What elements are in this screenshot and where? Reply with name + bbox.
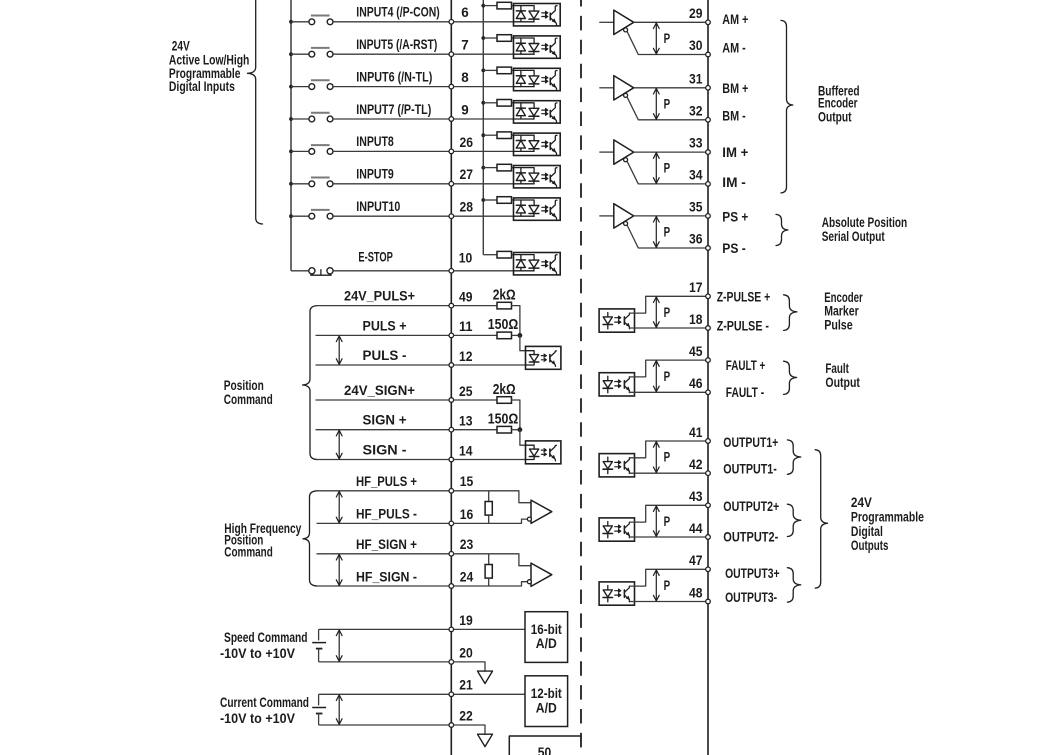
optocoupler input 6 <box>514 4 561 26</box>
node: INPUT4 bus junction <box>289 20 293 24</box>
wire: pin to SIGN opto <box>454 459 526 461</box>
wire: pin 6 to optocoupler <box>454 21 514 23</box>
svg-text:HF_PULS +: HF_PULS + <box>356 474 417 489</box>
svg-text:Digital Inputs: Digital Inputs <box>169 79 235 94</box>
line receiver HF <box>531 500 552 523</box>
svg-text:17: 17 <box>689 280 703 295</box>
svg-text:36: 36 <box>689 232 703 247</box>
svg-text:Pulse: Pulse <box>824 318 853 333</box>
twisted pair arrow SIGN <box>338 430 340 460</box>
pin 16 <box>449 521 454 526</box>
node: input bus junction row 7 <box>481 36 485 40</box>
node: INPUT8 bus junction <box>289 150 293 154</box>
svg-text:42: 42 <box>689 457 703 472</box>
svg-text:22: 22 <box>459 708 473 723</box>
twisted pair arrow Speed Command <box>338 629 340 662</box>
pin 7 <box>449 52 454 57</box>
svg-text:Command: Command <box>224 392 273 407</box>
source Current Command <box>318 694 320 705</box>
pin 6 <box>449 20 454 25</box>
pin 11 <box>449 333 454 338</box>
node: junction PULS <box>518 333 523 338</box>
node: junction SIGN <box>518 427 523 432</box>
switch INPUT7 <box>291 118 309 120</box>
svg-text:Encoder: Encoder <box>818 96 858 111</box>
svg-text:Marker: Marker <box>824 304 859 319</box>
svg-text:2kΩ: 2kΩ <box>493 382 516 398</box>
resistor input 9 <box>483 102 497 104</box>
svg-text:27: 27 <box>460 167 474 182</box>
svg-text:IM +: IM + <box>722 145 748 160</box>
svg-text:OUTPUT3-: OUTPUT3- <box>725 590 777 605</box>
wire: junction to PULS opto <box>520 335 526 350</box>
svg-text:INPUT8: INPUT8 <box>356 134 394 149</box>
twisted pair arrow HF_PULS <box>338 491 340 524</box>
svg-text:25: 25 <box>459 384 473 399</box>
svg-text:A/D: A/D <box>536 700 557 715</box>
pin 26 <box>449 149 454 154</box>
svg-text:A/D: A/D <box>536 636 557 651</box>
twisted pair arrow HF_SIGN <box>338 554 340 586</box>
optocoupler input 7 <box>514 36 561 58</box>
svg-text:P: P <box>664 31 671 46</box>
12-bit A/D converter <box>525 676 568 727</box>
resistor input 8 <box>483 69 497 71</box>
svg-text:33: 33 <box>689 136 703 151</box>
pin 21 <box>449 692 454 697</box>
wire: Current Command - to pin 22 <box>319 724 449 726</box>
svg-text:Output: Output <box>818 110 852 125</box>
wire: SIGN + to pin 13 <box>316 429 450 431</box>
wire: HF pair to receiver <box>454 491 531 503</box>
pin 19 <box>449 627 454 632</box>
wire: INPUT4 to pin 6 <box>333 21 449 23</box>
svg-text:FAULT -: FAULT - <box>726 385 764 400</box>
wire: HF_SIGN - to pin 24 <box>317 585 450 587</box>
svg-text:E-STOP: E-STOP <box>358 250 393 265</box>
svg-text:Z-PULSE -: Z-PULSE - <box>717 318 769 333</box>
wire: box pin 50 (partial) <box>509 736 581 755</box>
svg-text:150Ω: 150Ω <box>488 317 519 333</box>
optocoupler output Z-PULSE <box>599 309 634 332</box>
wire: drive output connector pin column (right) <box>707 0 709 755</box>
resistor 150 SIGN <box>454 429 497 431</box>
svg-text:46: 46 <box>689 376 703 391</box>
switch INPUT8 <box>291 150 309 152</box>
svg-text:IM -: IM - <box>722 175 746 190</box>
brace: OUTPUT2 pair <box>787 504 800 536</box>
wire: INPUT5 to pin 7 <box>333 53 449 55</box>
wire: HF pair to receiver <box>454 554 531 566</box>
svg-text:INPUT4 (/P-CON): INPUT4 (/P-CON) <box>356 5 440 20</box>
svg-text:15: 15 <box>460 474 474 489</box>
svg-text:PULS +: PULS + <box>363 318 407 333</box>
svg-text:HF_PULS -: HF_PULS - <box>356 507 417 522</box>
svg-text:49: 49 <box>459 289 473 304</box>
ground <box>478 734 493 746</box>
svg-text:AM +: AM + <box>722 12 748 27</box>
wire: 24V_SIGN+ to pin 25 <box>316 399 450 401</box>
wire: internal input-circuit bus <box>482 0 484 255</box>
svg-text:P: P <box>664 96 671 111</box>
node: input bus junction row 26 <box>481 133 485 137</box>
resistor input 28 <box>483 199 497 201</box>
svg-text:Serial Output: Serial Output <box>822 229 885 244</box>
svg-text:Fault: Fault <box>825 361 849 376</box>
wire: INPUT8 to pin 26 <box>333 150 449 152</box>
svg-text:31: 31 <box>689 71 703 86</box>
wire: E-STOP to pin 10 <box>333 270 449 272</box>
wire: INPUT10 to pin 28 <box>333 215 449 217</box>
resistor E-STOP input <box>497 251 512 258</box>
svg-text:PS -: PS - <box>722 241 746 256</box>
wire: pin 27 to optocoupler <box>454 183 514 185</box>
switch E-STOP (NC pushbutton) <box>309 268 315 274</box>
wire: pin 20 ground stub <box>454 662 485 671</box>
ground <box>478 671 493 683</box>
optocoupler output FAULT <box>599 373 634 396</box>
pin 27 <box>449 182 454 187</box>
svg-text:47: 47 <box>689 553 703 568</box>
node: input bus junction row 6 <box>481 4 485 8</box>
pin 9 <box>449 117 454 122</box>
wire: HF_SIGN + to pin 23 <box>317 553 450 555</box>
pin 8 <box>449 84 454 89</box>
svg-text:INPUT6 (/N-TL): INPUT6 (/N-TL) <box>356 69 432 84</box>
drive internal boundary (dashed) <box>580 0 582 755</box>
svg-text:PS +: PS + <box>722 209 748 224</box>
switch INPUT9 <box>291 183 309 185</box>
line driver PS <box>599 215 614 217</box>
pin 25 <box>449 398 454 403</box>
svg-text:BM -: BM - <box>722 108 746 123</box>
svg-text:11: 11 <box>459 319 473 334</box>
wire: pin to PULS opto <box>454 364 526 366</box>
brace: High Frequency Position Command group <box>303 491 317 586</box>
svg-text:HF_SIGN -: HF_SIGN - <box>356 569 417 584</box>
svg-text:26: 26 <box>460 135 474 150</box>
pin 10 <box>449 269 454 274</box>
svg-text:INPUT9: INPUT9 <box>356 167 394 182</box>
source Speed Command <box>318 629 320 640</box>
line driver BM <box>599 87 614 89</box>
svg-text:12: 12 <box>459 349 473 364</box>
wire: HF_PULS - to pin 16 <box>317 522 450 524</box>
pin 13 <box>449 427 454 432</box>
node: INPUT9 bus junction <box>289 182 293 186</box>
node: INPUT10 bus junction <box>289 214 293 218</box>
svg-text:Current Command: Current Command <box>220 695 309 711</box>
wire: left 24V bus <box>290 0 292 271</box>
svg-text:6: 6 <box>461 5 468 20</box>
twisted pair arrow Current Command <box>338 694 340 725</box>
brace: 24V Programmable Digital Outputs <box>815 450 827 588</box>
resistor 150 PULS <box>454 334 497 336</box>
wire: INPUT7 to pin 9 <box>333 118 449 120</box>
svg-text:Programmable: Programmable <box>851 510 924 525</box>
svg-text:SIGN -: SIGN - <box>363 443 407 458</box>
svg-text:Speed Command: Speed Command <box>224 630 308 646</box>
wire: SIGN - to pin 14 <box>316 459 450 461</box>
wire: pin 7 to optocoupler <box>454 53 514 55</box>
svg-text:10: 10 <box>459 251 473 266</box>
wire: drive input connector pin column (left) <box>450 0 452 755</box>
svg-text:AM -: AM - <box>722 40 746 55</box>
svg-text:41: 41 <box>689 425 703 440</box>
svg-text:24V_PULS+: 24V_PULS+ <box>344 289 415 304</box>
svg-text:Outputs: Outputs <box>851 538 889 553</box>
svg-text:34: 34 <box>689 168 703 183</box>
svg-text:INPUT7 (/P-TL): INPUT7 (/P-TL) <box>356 102 431 117</box>
line receiver HF <box>531 563 552 586</box>
svg-text:Z-PULSE +: Z-PULSE + <box>717 289 771 304</box>
wire: pin 28 to optocoupler <box>454 215 514 217</box>
optocoupler input 28 <box>514 198 561 220</box>
svg-text:-10V to +10V: -10V to +10V <box>220 646 295 662</box>
resistor 2k SIGN <box>454 399 497 401</box>
svg-text:P: P <box>664 161 671 176</box>
resistor input 27 <box>483 167 497 169</box>
svg-text:24V: 24V <box>172 38 190 53</box>
brace: OUTPUT1 pair <box>787 440 800 474</box>
optocoupler SIGN <box>526 441 561 464</box>
svg-text:30: 30 <box>689 38 703 53</box>
wire: PULS - to pin 12 <box>316 364 450 366</box>
svg-text:OUTPUT2+: OUTPUT2+ <box>723 499 779 514</box>
node: input bus junction row 28 <box>481 198 485 202</box>
svg-text:9: 9 <box>461 102 468 117</box>
pin 49 <box>449 303 454 308</box>
resistor HF termination <box>488 491 490 502</box>
svg-text:13: 13 <box>459 414 473 429</box>
optocoupler E-STOP <box>514 253 561 275</box>
wire: junction to SIGN opto <box>520 430 526 446</box>
optocoupler output OUTPUT1 <box>599 454 634 477</box>
node: input bus junction row 27 <box>481 166 485 170</box>
svg-text:23: 23 <box>460 537 474 552</box>
svg-text:24V: 24V <box>851 495 872 510</box>
wire: pin 9 to optocoupler <box>454 118 514 120</box>
brace: Position Command group <box>303 306 318 460</box>
wire: internal bus elbow to E-STOP opto resistor <box>483 254 497 256</box>
svg-text:P: P <box>664 305 671 320</box>
svg-text:16: 16 <box>460 507 474 522</box>
svg-text:Position: Position <box>224 378 264 393</box>
wire: Current Command + to pin 21 <box>319 693 449 695</box>
resistor input 7 <box>483 37 497 39</box>
wire: Speed Command + to pin 19 <box>319 628 449 630</box>
svg-text:12-bit: 12-bit <box>531 686 562 701</box>
switch INPUT6 <box>291 86 309 88</box>
svg-text:HF_SIGN +: HF_SIGN + <box>356 537 417 552</box>
line driver IM <box>599 151 614 153</box>
svg-text:44: 44 <box>689 521 703 536</box>
optocoupler input 26 <box>514 133 561 155</box>
svg-text:35: 35 <box>689 200 703 215</box>
16-bit A/D converter <box>525 612 568 663</box>
optocoupler output OUTPUT2 <box>599 518 634 541</box>
svg-text:OUTPUT1-: OUTPUT1- <box>723 461 777 476</box>
svg-text:150Ω: 150Ω <box>488 411 519 427</box>
twisted pair arrow PULS <box>338 335 340 365</box>
svg-text:43: 43 <box>689 489 703 504</box>
svg-text:Output: Output <box>825 375 860 390</box>
svg-text:SIGN +: SIGN + <box>363 413 407 428</box>
svg-text:7: 7 <box>461 38 468 53</box>
svg-text:FAULT +: FAULT + <box>726 358 766 373</box>
svg-text:Absolute Position: Absolute Position <box>822 215 908 230</box>
svg-text:P: P <box>664 225 671 240</box>
pin 23 <box>449 552 454 557</box>
node: INPUT7 bus junction <box>289 117 293 121</box>
brace: OUTPUT3 pair <box>787 568 800 602</box>
svg-text:BM +: BM + <box>722 81 748 96</box>
wire: INPUT9 to pin 27 <box>333 183 449 185</box>
svg-text:50: 50 <box>538 745 552 755</box>
brace: Encoder Marker Pulse <box>784 295 797 331</box>
node: INPUT6 bus junction <box>289 85 293 89</box>
wire: INPUT6 to pin 8 <box>333 86 449 88</box>
svg-text:Command: Command <box>224 545 272 560</box>
svg-text:20: 20 <box>459 645 473 660</box>
svg-text:2kΩ: 2kΩ <box>493 287 516 303</box>
resistor input 6 <box>483 5 497 7</box>
optocoupler output OUTPUT3 <box>599 582 634 605</box>
optocoupler PULS <box>526 346 561 369</box>
node: input bus junction row 9 <box>481 101 485 105</box>
svg-text:18: 18 <box>689 312 703 327</box>
wire: 24V_PULS+ to pin 49 <box>316 305 450 307</box>
switch INPUT5 <box>291 53 309 55</box>
svg-text:24V_SIGN+: 24V_SIGN+ <box>344 383 415 398</box>
svg-text:29: 29 <box>689 6 703 21</box>
svg-text:16-bit: 16-bit <box>531 622 562 637</box>
brace: Fault Output <box>784 361 797 394</box>
pin 24 <box>449 584 454 589</box>
switch INPUT10 <box>291 215 309 217</box>
node: INPUT5 bus junction <box>289 52 293 56</box>
wire: pin 8 to optocoupler <box>454 86 514 88</box>
pin 15 <box>449 489 454 494</box>
svg-text:INPUT5 (/A-RST): INPUT5 (/A-RST) <box>356 37 437 52</box>
brace: 24V digital inputs group <box>248 0 263 224</box>
resistor HF termination <box>488 554 490 565</box>
wire: pin 10 to E-STOP optocoupler <box>454 270 514 272</box>
svg-text:P: P <box>664 514 671 529</box>
svg-text:Digital: Digital <box>851 524 883 539</box>
optocoupler input 9 <box>514 101 561 123</box>
line driver AM <box>599 21 614 23</box>
wire: pin 21 to 12-bit A/D <box>454 693 525 695</box>
optocoupler input 8 <box>514 68 561 90</box>
resistor input 26 <box>483 134 497 136</box>
wire: Speed Command - to pin 20 <box>319 661 449 663</box>
svg-text:21: 21 <box>459 678 473 693</box>
svg-text:32: 32 <box>689 103 703 118</box>
svg-text:28: 28 <box>460 200 474 215</box>
svg-text:INPUT10: INPUT10 <box>356 199 400 214</box>
wire: PULS + to pin 11 <box>316 334 450 336</box>
wire: pin 22 ground stub <box>454 725 485 734</box>
svg-text:P: P <box>664 578 671 593</box>
pin 28 <box>449 214 454 219</box>
svg-text:-10V to +10V: -10V to +10V <box>220 711 295 727</box>
optocoupler input 27 <box>514 166 561 188</box>
resistor 2k PULS <box>454 305 497 307</box>
wire: pin 19 to 16-bit A/D <box>454 628 525 630</box>
wire: HF_PULS + to pin 15 <box>317 490 450 492</box>
node: input bus junction row 8 <box>481 69 485 73</box>
svg-text:24: 24 <box>460 569 474 584</box>
wire: left bus to E-STOP switch <box>291 270 309 272</box>
svg-text:PULS -: PULS - <box>363 348 407 363</box>
svg-text:45: 45 <box>689 344 703 359</box>
svg-text:48: 48 <box>689 585 703 600</box>
svg-text:P: P <box>664 450 671 465</box>
svg-text:8: 8 <box>461 70 469 85</box>
pin 22 <box>449 723 454 728</box>
pin 12 <box>449 363 454 368</box>
svg-text:P: P <box>664 369 671 384</box>
pin 14 <box>449 457 454 462</box>
switch INPUT4 <box>291 21 309 23</box>
svg-text:OUTPUT1+: OUTPUT1+ <box>723 435 778 450</box>
svg-text:14: 14 <box>459 443 473 458</box>
svg-text:OUTPUT2-: OUTPUT2- <box>723 529 778 544</box>
svg-text:OUTPUT3+: OUTPUT3+ <box>725 566 780 581</box>
pin 20 <box>449 660 454 665</box>
brace: Buffered Encoder Output <box>781 20 793 193</box>
wire: pin 26 to optocoupler <box>454 150 514 152</box>
brace: Absolute Position Serial Output <box>776 214 788 245</box>
svg-text:19: 19 <box>459 613 473 628</box>
